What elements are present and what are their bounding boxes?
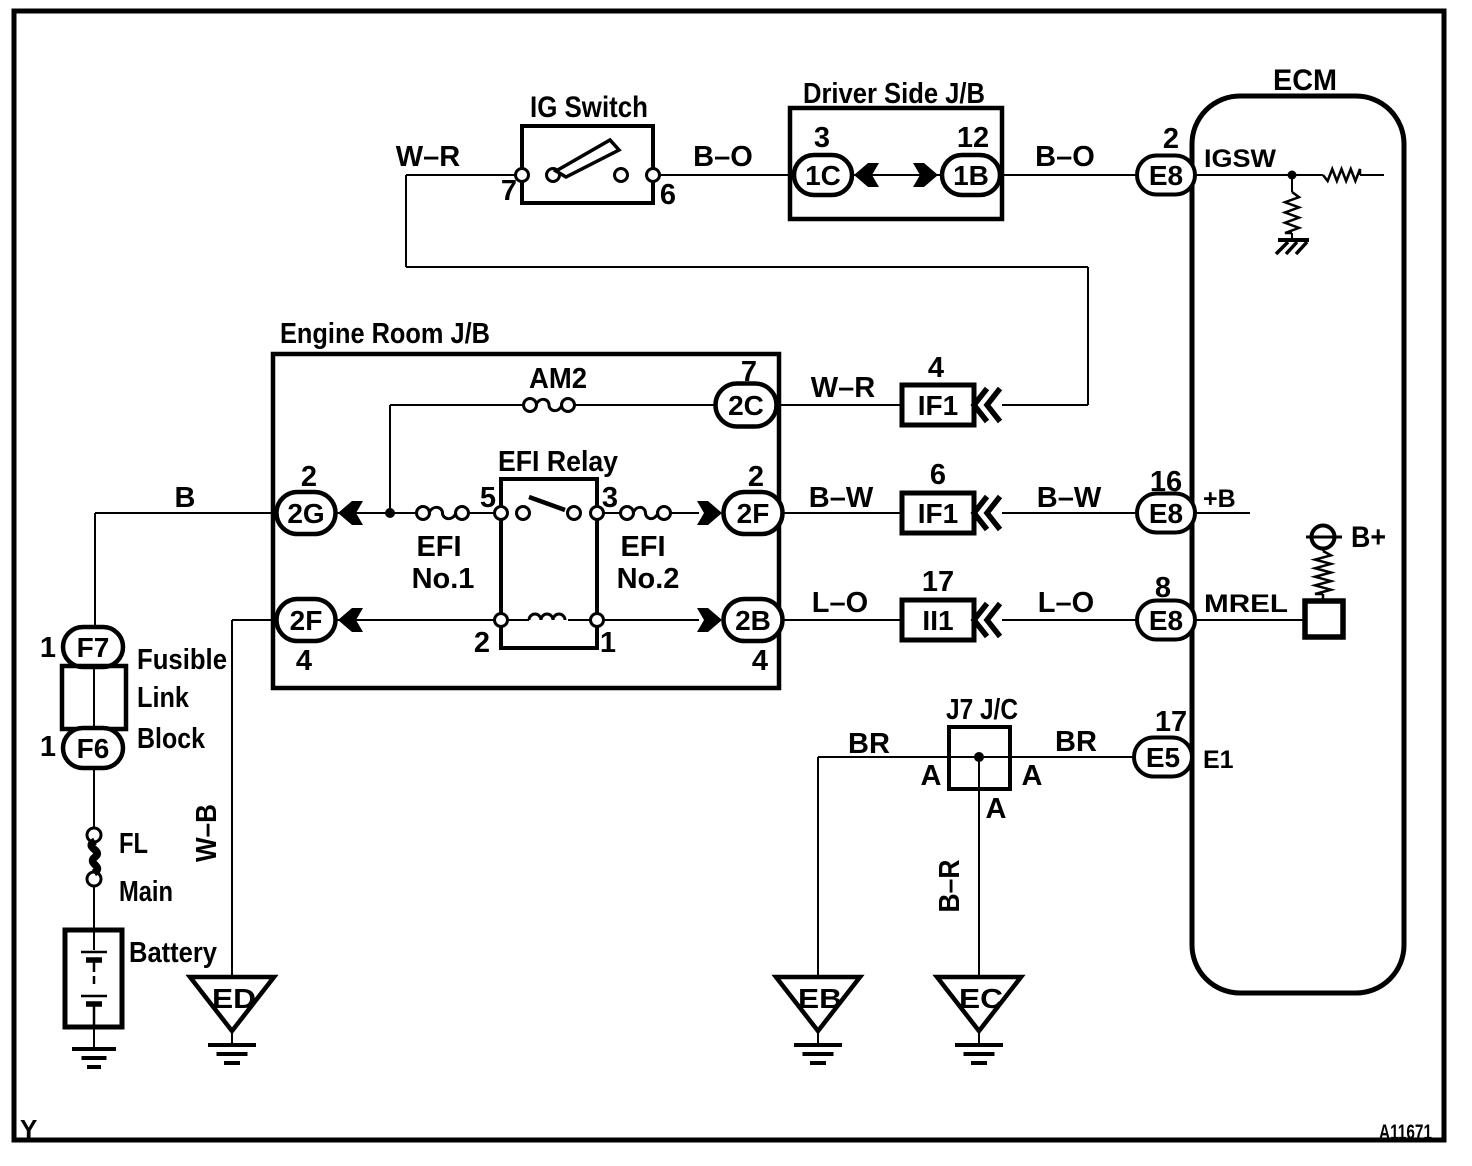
svg-text:Block: Block [137, 723, 206, 755]
connector arrow into 1C [854, 163, 879, 187]
svg-text:2G: 2G [287, 498, 324, 529]
svg-text:B: B [175, 482, 196, 514]
EB ground stub [817, 1031, 819, 1045]
svg-text:+B: +B [1203, 485, 1236, 513]
ECM module box U1 [1192, 96, 1404, 993]
connector 2F pin4 [277, 599, 336, 641]
wire AM2 row left segment [390, 404, 524, 406]
svg-text:No.1: No.1 [412, 563, 475, 595]
svg-text:E8: E8 [1149, 160, 1183, 191]
connector E8 pin16 [1137, 494, 1195, 533]
wire +B inside ECM [1195, 512, 1250, 514]
svg-text:W–R: W–R [396, 141, 461, 173]
EC ground stub [978, 1031, 980, 1045]
wire F6 to FL main [93, 768, 95, 828]
svg-text:ED: ED [212, 983, 256, 1014]
connector IF1 (pin6) box [902, 493, 974, 533]
svg-text:MREL: MREL [1204, 590, 1288, 618]
wire from relay pin1 to 2B arrow [603, 619, 699, 621]
svg-text:No.2: No.2 [617, 563, 680, 595]
svg-text:II1: II1 [922, 605, 953, 636]
svg-text:4: 4 [928, 352, 944, 384]
fuse EFI No.1 [417, 507, 430, 520]
svg-text:EB: EB [798, 983, 842, 1014]
wire through block [93, 667, 95, 728]
svg-text:L–O: L–O [1038, 587, 1094, 619]
svg-text:1: 1 [40, 632, 56, 664]
svg-text:4: 4 [752, 645, 768, 677]
wire AM2 row right segment [574, 404, 714, 406]
svg-text:5: 5 [480, 482, 496, 514]
svg-text:2: 2 [748, 461, 764, 493]
ground triangle ED [190, 977, 274, 1031]
svg-text:4: 4 [296, 645, 312, 677]
wire from IF1 chevrons to riser [1002, 404, 1088, 406]
wire down from IGSW node [1291, 175, 1293, 192]
wire riser left of IG switch down [405, 175, 407, 267]
long horizontal wire at y=267 [406, 266, 1088, 268]
svg-text:L–O: L–O [812, 587, 868, 619]
svg-text:B+: B+ [1351, 521, 1386, 554]
svg-text:EC: EC [959, 983, 1003, 1014]
resistor horizontal inside ECM [1323, 169, 1360, 181]
connector 1C [794, 155, 852, 195]
ground battery [72, 1047, 116, 1051]
wire W-R from riser to IG switch pin 7 [406, 174, 522, 176]
svg-text:2: 2 [474, 627, 490, 659]
svg-text:17: 17 [922, 566, 954, 598]
svg-text:ECM: ECM [1273, 64, 1337, 97]
IG switch blade [556, 140, 619, 177]
relay contact circles row [495, 507, 508, 520]
wire MREL inside ECM [1195, 619, 1305, 621]
relay coil L1 [529, 614, 565, 620]
node IGSW junction [1288, 171, 1297, 180]
svg-text:E1: E1 [1203, 746, 1234, 774]
svg-text:IF1: IF1 [918, 498, 958, 529]
svg-text:B–R: B–R [934, 859, 966, 912]
wire BR from J7 to E5 [1010, 756, 1134, 758]
chevrons II1 [974, 604, 987, 637]
wire B-W from 2F to IF1 [783, 512, 902, 514]
svg-text:6: 6 [930, 459, 946, 491]
svg-text:F7: F7 [77, 632, 110, 663]
relay coil row wire [507, 619, 529, 621]
svg-text:12: 12 [957, 122, 989, 154]
riser W-B down to ED triangle [231, 620, 233, 977]
connector arrow into 2F(4) [338, 608, 363, 632]
svg-text:2B: 2B [735, 605, 771, 636]
connector arrow into 2F [697, 501, 722, 525]
chevrons IF1 pin4 [974, 389, 987, 422]
svg-text:B–W: B–W [809, 482, 874, 514]
wire riser down to IF1 row [1087, 267, 1089, 405]
ground triangle EC [937, 977, 1021, 1031]
connector 2G [277, 492, 336, 534]
svg-text:6: 6 [660, 179, 676, 211]
chevrons IF1 pin6 [974, 497, 987, 530]
wire BR from EB riser to J7 [818, 756, 949, 758]
svg-text:7: 7 [741, 356, 757, 388]
EFI Relay box K1 [501, 479, 597, 648]
svg-text:IF1: IF1 [918, 390, 958, 421]
Driver Side J/B box [790, 108, 1002, 219]
svg-text:3: 3 [814, 122, 830, 154]
relay coil pin circles [495, 614, 508, 627]
connector F6 [63, 728, 123, 768]
svg-text:A11671: A11671 [1379, 1121, 1432, 1144]
svg-text:A: A [921, 760, 942, 792]
wire inside Driver Side J/B between 1C and 1B [852, 174, 942, 176]
connector 2F (pin2) [724, 492, 783, 534]
connector arrow into 2B [697, 608, 722, 632]
Engine Room J/B box [273, 354, 779, 688]
svg-text:E5: E5 [1146, 742, 1180, 773]
wire through J7 horizontal [949, 756, 1010, 758]
wire from W-B riser to 2F(4) [232, 619, 277, 621]
svg-text:W–R: W–R [811, 372, 876, 404]
connector E5 pin17 [1134, 738, 1192, 777]
svg-text:A: A [986, 793, 1007, 825]
relay coil box MREL (square) [1305, 601, 1343, 637]
svg-text:FL: FL [119, 828, 148, 860]
svg-text:IGSW: IGSW [1204, 145, 1276, 173]
svg-text:W–B: W–B [191, 804, 223, 862]
svg-text:Main: Main [119, 876, 173, 908]
svg-text:3: 3 [602, 482, 618, 514]
ground EC bars [955, 1043, 1003, 1047]
svg-text:B–O: B–O [693, 141, 753, 173]
wire riser from AM2 row to node on 2G row [389, 405, 391, 513]
svg-text:J7 J/C: J7 J/C [946, 694, 1018, 726]
svg-text:2: 2 [301, 461, 317, 493]
ground ED bars [208, 1043, 256, 1047]
wire L-O from 2B to II1 [783, 619, 902, 621]
connector E8 pin2 [1137, 156, 1195, 195]
svg-text:Battery: Battery [129, 937, 217, 969]
wire B-R down from J7 [978, 757, 980, 977]
svg-text:EFI: EFI [620, 531, 665, 563]
connector E8 pin8 [1137, 601, 1195, 640]
wire fuse to 2F arrow [670, 512, 699, 514]
fusible link block box [62, 666, 126, 729]
wire left riser down to F7 [94, 513, 96, 627]
svg-text:EFI: EFI [416, 531, 461, 563]
svg-text:2: 2 [1163, 123, 1179, 155]
wire B-W from IF1 to E8 [1002, 512, 1137, 514]
wire B-O from IG switch pin 6 to Driver Side J/B [653, 174, 794, 176]
svg-text:EFI Relay: EFI Relay [498, 446, 618, 478]
svg-text:1C: 1C [805, 160, 841, 191]
connector arrow into 2G [338, 501, 363, 525]
svg-text:2C: 2C [728, 390, 764, 421]
wire FL main to battery [93, 886, 95, 930]
svg-text:B–W: B–W [1037, 482, 1102, 514]
ED ground stub [231, 1031, 233, 1045]
svg-text:BR: BR [848, 728, 890, 760]
riser to EB triangle [817, 757, 819, 977]
connector F7 [63, 627, 123, 667]
svg-text:8: 8 [1155, 572, 1171, 604]
connector II1 (pin17) box [902, 600, 974, 640]
ground EB bars [794, 1043, 842, 1047]
svg-text:17: 17 [1155, 706, 1187, 738]
svg-text:1: 1 [40, 731, 56, 763]
svg-text:2F: 2F [290, 605, 323, 636]
node AM2 riser junction [385, 508, 395, 518]
resistor vertical under B+ [1322, 548, 1325, 551]
connector 2B [724, 599, 783, 641]
svg-text:2F: 2F [737, 498, 770, 529]
svg-text:1: 1 [600, 627, 616, 659]
ground triangle EB [776, 977, 860, 1031]
junction block J7 J/C box [949, 727, 1010, 789]
svg-text:B–O: B–O [1035, 141, 1095, 173]
wire 2F4 row inside J/B [336, 619, 495, 621]
connector 2C [716, 384, 777, 427]
IG Switch box S1 [522, 126, 653, 203]
connector 1B [942, 155, 1000, 195]
svg-text:E8: E8 [1149, 498, 1183, 529]
connector arrow into 1B [913, 163, 938, 187]
svg-text:7: 7 [501, 175, 517, 207]
wire from relay pin3 to fuse EFI No.2 [603, 512, 621, 514]
battery BT1 [65, 930, 122, 1027]
svg-text:1B: 1B [953, 160, 989, 191]
internal ground (hatched) [1278, 238, 1309, 242]
B+ feed symbol [1312, 526, 1335, 549]
connector IF1 (pin4) box [902, 385, 974, 425]
wire B from left riser to 2G [95, 512, 277, 514]
svg-text:A: A [1022, 760, 1043, 792]
wire IGSW inside ECM [1195, 174, 1323, 176]
wire W-R from 2C to IF1 [775, 404, 902, 406]
wire 2G row inside J/B [336, 512, 417, 514]
svg-text:AM2: AM2 [529, 363, 587, 395]
fuse AM2 [524, 399, 537, 412]
wire battery to ground [93, 1027, 95, 1049]
wire L-O from II1 to E8 [1002, 619, 1137, 621]
svg-text:F6: F6 [77, 733, 110, 764]
svg-text:IG Switch: IG Switch [530, 91, 648, 124]
node J7 junction [974, 752, 984, 762]
fuse EFI No.2 [621, 507, 634, 520]
svg-text:Engine Room J/B: Engine Room J/B [280, 318, 490, 350]
IG switch contact circles [516, 169, 529, 182]
fusible link FL Main [87, 828, 101, 842]
resistor vertical inside ECM [1285, 192, 1299, 233]
svg-text:Driver Side J/B: Driver Side J/B [803, 78, 985, 110]
svg-text:Link: Link [137, 682, 190, 714]
relay switch blade [529, 497, 565, 510]
svg-text:16: 16 [1150, 466, 1182, 498]
wire B-O from 1B to ECM connector E8 [1002, 174, 1137, 176]
svg-text:Fusible: Fusible [137, 644, 227, 676]
svg-text:E8: E8 [1149, 605, 1183, 636]
svg-text:BR: BR [1055, 726, 1097, 758]
svg-text:Y: Y [20, 1114, 37, 1144]
